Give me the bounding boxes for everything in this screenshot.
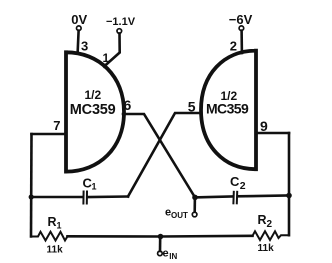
op-amp U1 (left 1/2 MC359) bbox=[66, 52, 124, 171]
wire C2 left segment to eOUT junction bbox=[195, 195, 232, 198]
wire pin 6 stub and cross-couple diagonal to eOUT node bbox=[123, 114, 195, 197]
terminal -1.1V bbox=[106, 16, 136, 33]
svg-text:3: 3 bbox=[81, 39, 88, 54]
junction node eOUT bbox=[192, 195, 198, 201]
op-amp U2 (right 1/2 MC359) bbox=[201, 51, 256, 170]
junction node left rail / C1 bbox=[29, 194, 34, 199]
svg-text:R: R bbox=[48, 215, 57, 229]
svg-text:11k: 11k bbox=[258, 243, 275, 254]
svg-text:IN: IN bbox=[169, 252, 177, 261]
svg-text:C: C bbox=[230, 174, 240, 189]
svg-text:1/2: 1/2 bbox=[85, 88, 102, 102]
wire pin 1 (-1.1V to U1 curve) bbox=[104, 33, 120, 66]
wire eOUT stub down bbox=[193, 197, 196, 211]
wire pin 5 stub and cross-couple diagonal to C1 corner bbox=[128, 113, 201, 197]
wire pin 3 (0V to U1 top) bbox=[78, 31, 79, 54]
resistor R1 bbox=[31, 215, 68, 256]
wire bottom rail eIN to R2 bbox=[161, 235, 253, 238]
svg-text:11k: 11k bbox=[47, 245, 64, 256]
terminal eIN bbox=[158, 248, 178, 261]
terminal eOUT bbox=[165, 207, 197, 221]
svg-text:e: e bbox=[163, 248, 169, 260]
svg-text:OUT: OUT bbox=[171, 211, 188, 220]
junction node right rail / C2 bbox=[286, 193, 292, 199]
svg-text:2: 2 bbox=[267, 219, 273, 230]
svg-text:MC359: MC359 bbox=[70, 102, 116, 118]
wire left rail (vertical) bbox=[30, 134, 33, 237]
terminal -6V bbox=[229, 12, 253, 31]
wire right rail (vertical) bbox=[288, 133, 291, 235]
svg-text:6: 6 bbox=[124, 97, 132, 113]
wire pin 9 stub bbox=[256, 132, 289, 135]
svg-text:9: 9 bbox=[260, 118, 268, 134]
svg-text:2: 2 bbox=[240, 180, 246, 192]
terminal 0V bbox=[71, 12, 87, 31]
wire pin 7 to left rail bbox=[32, 133, 67, 136]
resistor R2 bbox=[253, 213, 290, 254]
wire C1 left segment bbox=[31, 196, 82, 199]
capacitor C2 bbox=[230, 174, 246, 203]
junction node eIN bbox=[158, 234, 164, 240]
wire eIN stub down bbox=[159, 237, 162, 252]
capacitor C1 bbox=[83, 176, 97, 204]
svg-text:MC359: MC359 bbox=[206, 101, 249, 117]
svg-text:2: 2 bbox=[230, 39, 237, 54]
svg-text:−6V: −6V bbox=[229, 12, 253, 27]
wire bottom rail R1 to eIN junction bbox=[68, 235, 161, 238]
wire C1 right segment to corner bbox=[89, 195, 128, 198]
svg-text:1: 1 bbox=[92, 182, 97, 192]
svg-text:−1.1V: −1.1V bbox=[106, 16, 136, 28]
svg-text:7: 7 bbox=[53, 118, 60, 133]
wire pin 2 (-6V to U2 top) bbox=[240, 31, 243, 53]
svg-text:1: 1 bbox=[57, 221, 62, 231]
wire C2 right segment bbox=[239, 194, 290, 197]
svg-text:0V: 0V bbox=[71, 12, 87, 27]
svg-text:R: R bbox=[258, 213, 267, 227]
